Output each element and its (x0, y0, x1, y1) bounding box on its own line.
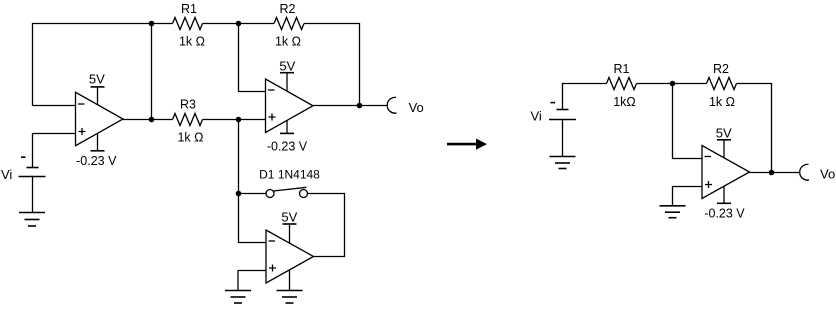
wire: U1 minus input (33, 105, 76, 107)
ground under V2 (550, 157, 576, 169)
svg-text:R2: R2 (280, 2, 296, 16)
resistor R1 (right circuit) (607, 78, 637, 90)
op-amp U4 (702, 146, 750, 199)
label minus of V1 (21, 156, 26, 158)
op-amp U1 (76, 92, 124, 146)
svg-text:-0.23 V: -0.23 V (76, 154, 117, 168)
svg-text:Vo: Vo (409, 100, 424, 115)
resistor R1 (left circuit) (173, 18, 203, 30)
wire: top net node down to U2 minus input (239, 24, 266, 92)
op-amp U2 (266, 79, 314, 133)
svg-text:1k Ω: 1k Ω (275, 35, 301, 49)
U2 VEE pin -0.23 V (267, 120, 308, 153)
node at U2 output (357, 103, 363, 109)
U1 VCC pin 5V (89, 71, 105, 104)
node at U4 output (769, 170, 775, 176)
wire: U1 output to R3 (123, 119, 173, 121)
op-amp U3 (266, 230, 314, 283)
svg-text:1k Ω: 1k Ω (709, 95, 735, 109)
svg-text:1k Ω: 1k Ω (179, 35, 205, 49)
wire: U4 output to port Vo (750, 172, 801, 174)
U1 VEE pin -0.23 V (76, 133, 117, 168)
wire: right node down to U4 minus input (673, 84, 703, 159)
node at U1 output / R3 (149, 117, 155, 123)
svg-text:R2: R2 (713, 62, 729, 76)
svg-text:R3: R3 (180, 97, 196, 111)
svg-text:5V: 5V (279, 58, 295, 73)
svg-text:D1 1N4148: D1 1N4148 (259, 168, 320, 182)
ground under V1 (19, 213, 45, 227)
wire: R1 to R2 (right) (637, 83, 707, 85)
wire: R2 right end down to U4 output node (737, 84, 772, 173)
svg-text:Vi: Vi (531, 108, 542, 123)
svg-text:Vi: Vi (1, 167, 12, 182)
wire: switch node down to U3 minus input (239, 194, 267, 243)
svg-text:1kΩ: 1kΩ (613, 95, 636, 109)
resistor R3 (173, 114, 203, 126)
wire: U4 plus input to ground (673, 187, 703, 206)
node at switch net (236, 191, 242, 197)
U3 VEE pin to ground (289, 270, 291, 291)
U4 VEE pin -0.23 V (704, 186, 745, 221)
diode D1 drawn as switch: contact circles and lever (266, 187, 308, 197)
svg-text:5V: 5V (281, 210, 297, 225)
ground under U3 plus input (225, 291, 251, 304)
ground under U4 plus input (660, 206, 686, 218)
svg-text:1k Ω: 1k Ω (177, 131, 203, 145)
resistor R2 (right circuit) (707, 78, 737, 90)
label minus of V2 (551, 102, 556, 104)
svg-text:Vo: Vo (820, 167, 835, 182)
wire: vertical from top net node down to U1 output node (151, 24, 153, 120)
wire: R3 to U2 plus input (203, 119, 266, 121)
node at top net and U1 output vertical (149, 21, 155, 27)
node at right R1/R2 junction (670, 81, 676, 87)
wire: battery V2 to ground (562, 120, 564, 157)
wire: R2 right end down to U2 output net (304, 24, 360, 106)
U3 VCC pin 5V (281, 210, 297, 244)
svg-text:5V: 5V (89, 71, 105, 86)
arrow between circuits (447, 139, 487, 150)
ground under U3 VEE (277, 291, 303, 304)
wire: R1 to R2 (203, 23, 275, 25)
battery V2 (Vi source, right) (549, 110, 576, 120)
wire: right circuit top net battery to R1 (563, 84, 607, 110)
resistor R2 (left circuit) (274, 18, 304, 30)
wire: vertical from R3 node down to switch node (238, 120, 240, 194)
U4 VCC pin 5V (716, 125, 732, 158)
svg-text:R1: R1 (614, 62, 630, 76)
node at R1/R2 junction (236, 21, 242, 27)
svg-text:-0.23 V: -0.23 V (704, 207, 745, 221)
node at R3 / U2 plus junction (236, 117, 242, 123)
wire: U3 plus input to ground (238, 271, 266, 291)
svg-text:-0.23 V: -0.23 V (267, 140, 308, 154)
battery V1 (Vi source) (19, 168, 46, 177)
wire: U2 output to port Vo (313, 105, 388, 107)
wire: U1 plus input down to battery V1 (33, 134, 76, 168)
wire: feedback loop from U1 minus input up and along top to R1 (33, 24, 173, 106)
wire: D1 right side down and into U3 output (308, 194, 345, 257)
svg-text:R1: R1 (181, 2, 197, 16)
U2 VCC pin 5V (279, 58, 295, 91)
wire: battery V1 to ground (32, 177, 34, 213)
port Vo (left circuit) (387, 97, 396, 113)
wire: switch node to D1 (239, 193, 267, 195)
port Vo (right circuit) (800, 164, 809, 180)
svg-text:5V: 5V (716, 125, 732, 140)
